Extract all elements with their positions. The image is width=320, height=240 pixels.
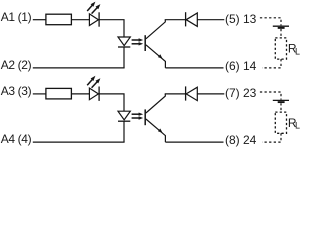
wire emitter to terminal 14: [165, 67, 223, 69]
svg-text:A1 (1): A1 (1): [1, 10, 32, 24]
phototransistor Q1 emitter arrow: [158, 54, 163, 58]
output diode ch2 cathode bar: [185, 86, 187, 100]
svg-text:L: L: [295, 46, 300, 56]
wire A1 to resistor: [33, 19, 46, 21]
wire collector to diode ch2: [165, 93, 185, 95]
svg-text:(7) 23: (7) 23: [225, 86, 257, 100]
output diode (pointing left): [186, 13, 197, 26]
dashed wire from 13 to battery: [260, 18, 281, 26]
svg-text:L: L: [295, 121, 300, 131]
optocoupler LED cathode bar: [118, 46, 130, 48]
LED D1 (indicator diode): [89, 14, 98, 26]
wire A3 to resistor: [33, 93, 46, 95]
light arrow lower ch2: [132, 116, 144, 119]
output diode ch2 (pointing left): [186, 87, 197, 100]
LED D1 cathode bar: [98, 12, 100, 26]
wire LED cathode down to A2 rail: [123, 47, 125, 68]
light arrow upper: [132, 38, 144, 41]
wire LED to corner: [99, 94, 124, 111]
phototransistor Q1 base bar: [144, 35, 146, 51]
svg-text:(5) 13: (5) 13: [225, 12, 257, 26]
phototransistor Q2 emitter: [146, 119, 166, 142]
LED D2 (indicator diode): [89, 88, 98, 100]
LED D1 emission arrow 2: [92, 4, 101, 14]
dashed wire load resistor to 14: [262, 59, 281, 68]
LED D2 cathode bar: [98, 87, 100, 101]
svg-text:A2 (2): A2 (2): [1, 58, 32, 72]
wire collector to diode: [165, 19, 185, 21]
wire A4 rail: [33, 141, 125, 143]
wire diode to terminal 13: [197, 19, 224, 21]
battery negative plate ch2: [278, 101, 285, 103]
light arrow upper ch2: [132, 113, 144, 116]
resistor R (input series): [46, 14, 72, 25]
svg-text:(6) 14: (6) 14: [225, 59, 257, 73]
LED D2 emission arrow 2: [92, 78, 101, 88]
LED D1 emission arrow 1: [87, 2, 95, 11]
optocoupler LED ch2 (pointing down): [118, 111, 130, 120]
dashed wire battery to load resistor ch2: [280, 103, 282, 112]
svg-text:A3 (3): A3 (3): [1, 84, 32, 98]
optocoupler LED ch2 cathode bar: [118, 120, 130, 122]
wire LED cathode down to A4 rail: [123, 121, 125, 142]
phototransistor Q2 base bar: [144, 109, 146, 125]
dashed wire load resistor to 24: [262, 133, 281, 142]
wire A2 rail: [33, 67, 125, 69]
LED D2 emission arrow 1: [87, 76, 95, 85]
wire LED to corner: [99, 20, 124, 37]
battery negative plate: [278, 27, 285, 29]
phototransistor Q1 collector: [146, 20, 165, 39]
resistor R (input series, ch2): [46, 88, 72, 99]
dashed wire from 23 to battery: [260, 92, 281, 100]
wire resistor to LED: [71, 93, 89, 95]
battery positive plate: [273, 25, 289, 27]
battery positive plate ch2: [273, 99, 289, 101]
wire emitter to terminal 24: [165, 141, 223, 143]
svg-text:(8) 24: (8) 24: [225, 133, 257, 147]
phototransistor Q1 emitter: [146, 45, 166, 68]
phototransistor Q2 collector: [146, 94, 165, 113]
phototransistor Q2 emitter arrow: [158, 129, 163, 133]
output diode cathode bar: [185, 12, 187, 26]
svg-text:A4 (4): A4 (4): [1, 132, 32, 146]
light arrow lower: [132, 42, 144, 45]
wire diode to terminal 23: [197, 93, 224, 95]
dashed wire battery to load resistor: [280, 29, 282, 38]
load resistor RL ch2 (dashed box): [275, 112, 286, 133]
optocoupler LED (emitter diode, pointing down): [118, 37, 130, 46]
load resistor RL (dashed box): [275, 38, 286, 59]
wire resistor to LED: [71, 19, 89, 21]
